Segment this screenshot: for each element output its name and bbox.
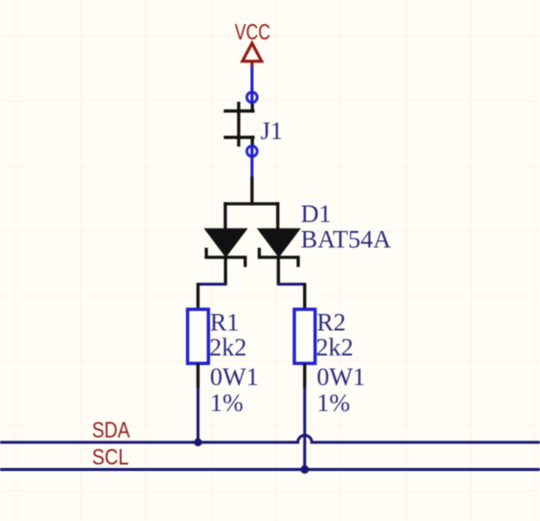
svg-text:R2: R2 xyxy=(317,310,346,337)
wire J1 pin 2 down xyxy=(251,145,254,178)
jumper J1 body xyxy=(225,103,253,145)
svg-text:SDA: SDA xyxy=(92,419,130,443)
J1 pin ring top xyxy=(247,92,257,102)
resistor R2 body xyxy=(294,309,315,363)
net SCL wire xyxy=(0,468,540,471)
resistor R1 body xyxy=(188,309,209,363)
svg-text:SCL: SCL xyxy=(92,445,129,470)
junction SDA/R1 xyxy=(194,438,202,446)
svg-text:1%: 1% xyxy=(210,390,243,417)
J1 pin ring bottom xyxy=(247,146,257,156)
junction SCL/R2 xyxy=(301,465,309,473)
svg-text:BAT54A: BAT54A xyxy=(301,226,391,253)
diode D1 right half (schottky) xyxy=(258,229,300,257)
wire diode right to R2 xyxy=(277,283,306,286)
svg-text:D1: D1 xyxy=(301,201,332,228)
diode D1 left half (schottky) xyxy=(205,229,247,257)
wire R2 to SCL xyxy=(303,387,306,470)
pin R1 bottom xyxy=(196,363,199,388)
wire VCC to J1 pin 1 xyxy=(251,67,254,104)
wire R1 to SDA xyxy=(197,387,200,442)
svg-text:J1: J1 xyxy=(261,118,283,145)
net SDA wire with hop xyxy=(0,435,540,442)
wire to diode common anode xyxy=(225,178,277,230)
pin R2 bottom xyxy=(303,363,306,388)
svg-text:0W1: 0W1 xyxy=(210,364,259,391)
power port VCC symbol xyxy=(242,43,261,67)
svg-text:0W1: 0W1 xyxy=(317,364,366,391)
svg-text:2k2: 2k2 xyxy=(209,334,247,361)
svg-text:2k2: 2k2 xyxy=(316,334,354,361)
pin R2 top xyxy=(303,283,306,310)
svg-text:1%: 1% xyxy=(317,390,350,417)
svg-text:R1: R1 xyxy=(210,310,239,337)
pin R1 top xyxy=(196,283,199,310)
wire diode left to R1 xyxy=(197,283,227,286)
